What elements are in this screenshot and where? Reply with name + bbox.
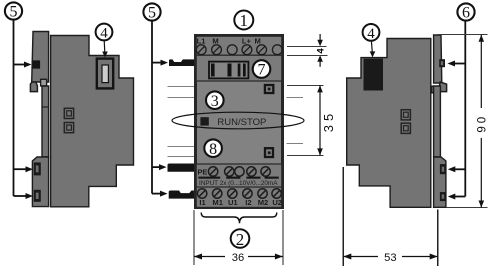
dim 4 arrows xyxy=(319,34,321,41)
dim 36 line xyxy=(194,256,225,258)
svg-text:I2: I2 xyxy=(245,198,251,207)
svg-text:M: M xyxy=(255,37,261,46)
svg-text:35: 35 xyxy=(321,110,336,132)
connector band xyxy=(197,55,281,81)
bottom terminal area (darker) xyxy=(197,164,281,207)
svg-text:2: 2 xyxy=(236,230,245,249)
strip lower tab A xyxy=(440,164,446,174)
svg-text:U2: U2 xyxy=(272,198,282,207)
svg-text:4: 4 xyxy=(100,25,108,41)
arrowheads for callout 5 left xyxy=(24,62,32,68)
dim 90 extension lines xyxy=(438,34,488,36)
vent square 2 xyxy=(401,123,410,133)
dim 35 line xyxy=(319,85,321,155)
LED square lower right xyxy=(265,148,273,157)
strip lower tab A xyxy=(34,162,41,175)
rear strip lower wide part xyxy=(434,157,446,207)
dim 53 line xyxy=(343,256,378,258)
svg-text:6: 6 xyxy=(462,5,470,22)
svg-text:8: 8 xyxy=(209,141,217,158)
callout 4 (right) xyxy=(363,24,380,41)
left black tab 3 (with notch) xyxy=(169,191,196,199)
svg-text:5: 5 xyxy=(148,5,156,22)
rear strip narrow mid part xyxy=(434,86,441,157)
black expansion connector xyxy=(364,59,384,91)
callout 5 (left) xyxy=(5,2,27,196)
left black tab 2 xyxy=(168,164,196,172)
band separator lines xyxy=(195,54,283,56)
svg-text:5: 5 xyxy=(10,4,18,21)
callout 7 xyxy=(253,60,271,78)
dim 90 line xyxy=(480,35,482,108)
section ellipse xyxy=(172,112,304,129)
svg-text:1: 1 xyxy=(240,11,249,30)
callout 2 xyxy=(231,229,250,248)
construction lines right of front view xyxy=(287,98,303,144)
strip lower tab B xyxy=(440,192,446,201)
connector slot (light) xyxy=(102,65,108,83)
vent square 1 xyxy=(64,108,73,118)
top screw terminals xyxy=(196,45,282,55)
brace under module xyxy=(201,213,277,224)
left black tab 1 (with notch) xyxy=(169,59,196,66)
dim 35 extension lines xyxy=(287,85,324,87)
dim 4 extension lines xyxy=(287,46,327,48)
rear strip lower wide part xyxy=(32,157,48,207)
svg-text:53: 53 xyxy=(384,252,396,264)
svg-text:7: 7 xyxy=(258,62,266,79)
strip top tab xyxy=(439,59,445,67)
callout 8 xyxy=(204,139,222,157)
svg-text:36: 36 xyxy=(232,252,244,264)
module front face xyxy=(196,36,283,208)
rear strip upper part xyxy=(434,35,442,83)
latch box (right) xyxy=(432,86,438,93)
svg-text:PE: PE xyxy=(198,167,208,176)
bottom terminal labels xyxy=(199,198,282,207)
body of right side view xyxy=(347,39,431,208)
callout 6 xyxy=(452,3,475,196)
svg-text:U1: U1 xyxy=(228,198,238,207)
svg-text:4: 4 xyxy=(367,26,375,42)
svg-text:RUN/STOP: RUN/STOP xyxy=(217,117,266,128)
construction lines left of front view xyxy=(168,87,195,157)
bottom screw terminals xyxy=(197,189,281,198)
vent square 1 xyxy=(401,110,410,120)
svg-text:I1: I1 xyxy=(199,198,206,207)
rear strip narrow mid part xyxy=(42,86,49,157)
svg-text:M1: M1 xyxy=(212,198,223,207)
callout 4 (left) xyxy=(96,24,113,41)
vent square 2 xyxy=(64,123,73,133)
svg-text:M2: M2 xyxy=(258,198,269,207)
mechanical slide connector (band detail) xyxy=(209,62,248,79)
DIN clip hook xyxy=(30,82,37,92)
strip top black tab xyxy=(33,61,40,69)
svg-text:90: 90 xyxy=(477,114,489,133)
expansion connector block (side) xyxy=(97,59,113,89)
dim 36 extension lines xyxy=(193,210,195,265)
DIN clip hook (right) xyxy=(439,82,446,92)
black bars xyxy=(198,177,278,179)
terminal strip top (darker) xyxy=(197,37,281,55)
callout 3 xyxy=(206,91,224,109)
latch box xyxy=(41,79,47,86)
RUN/STOP LED and label xyxy=(200,117,208,125)
body of left side view xyxy=(51,36,134,207)
svg-text:4: 4 xyxy=(315,48,326,54)
strip seam line xyxy=(42,106,49,108)
callout 5 (middle) xyxy=(143,3,162,193)
rear DIN strip upper part xyxy=(32,32,49,83)
dim 53 extension lines xyxy=(342,167,344,266)
svg-text:INPUT 2x (0...10V/0...20mA: INPUT 2x (0...10V/0...20mA xyxy=(199,180,278,187)
top terminal labels xyxy=(197,37,261,46)
svg-text:3: 3 xyxy=(211,93,219,110)
LED square upper right xyxy=(265,85,273,93)
callout 1 xyxy=(234,11,253,30)
strip lower tab B xyxy=(34,190,41,202)
